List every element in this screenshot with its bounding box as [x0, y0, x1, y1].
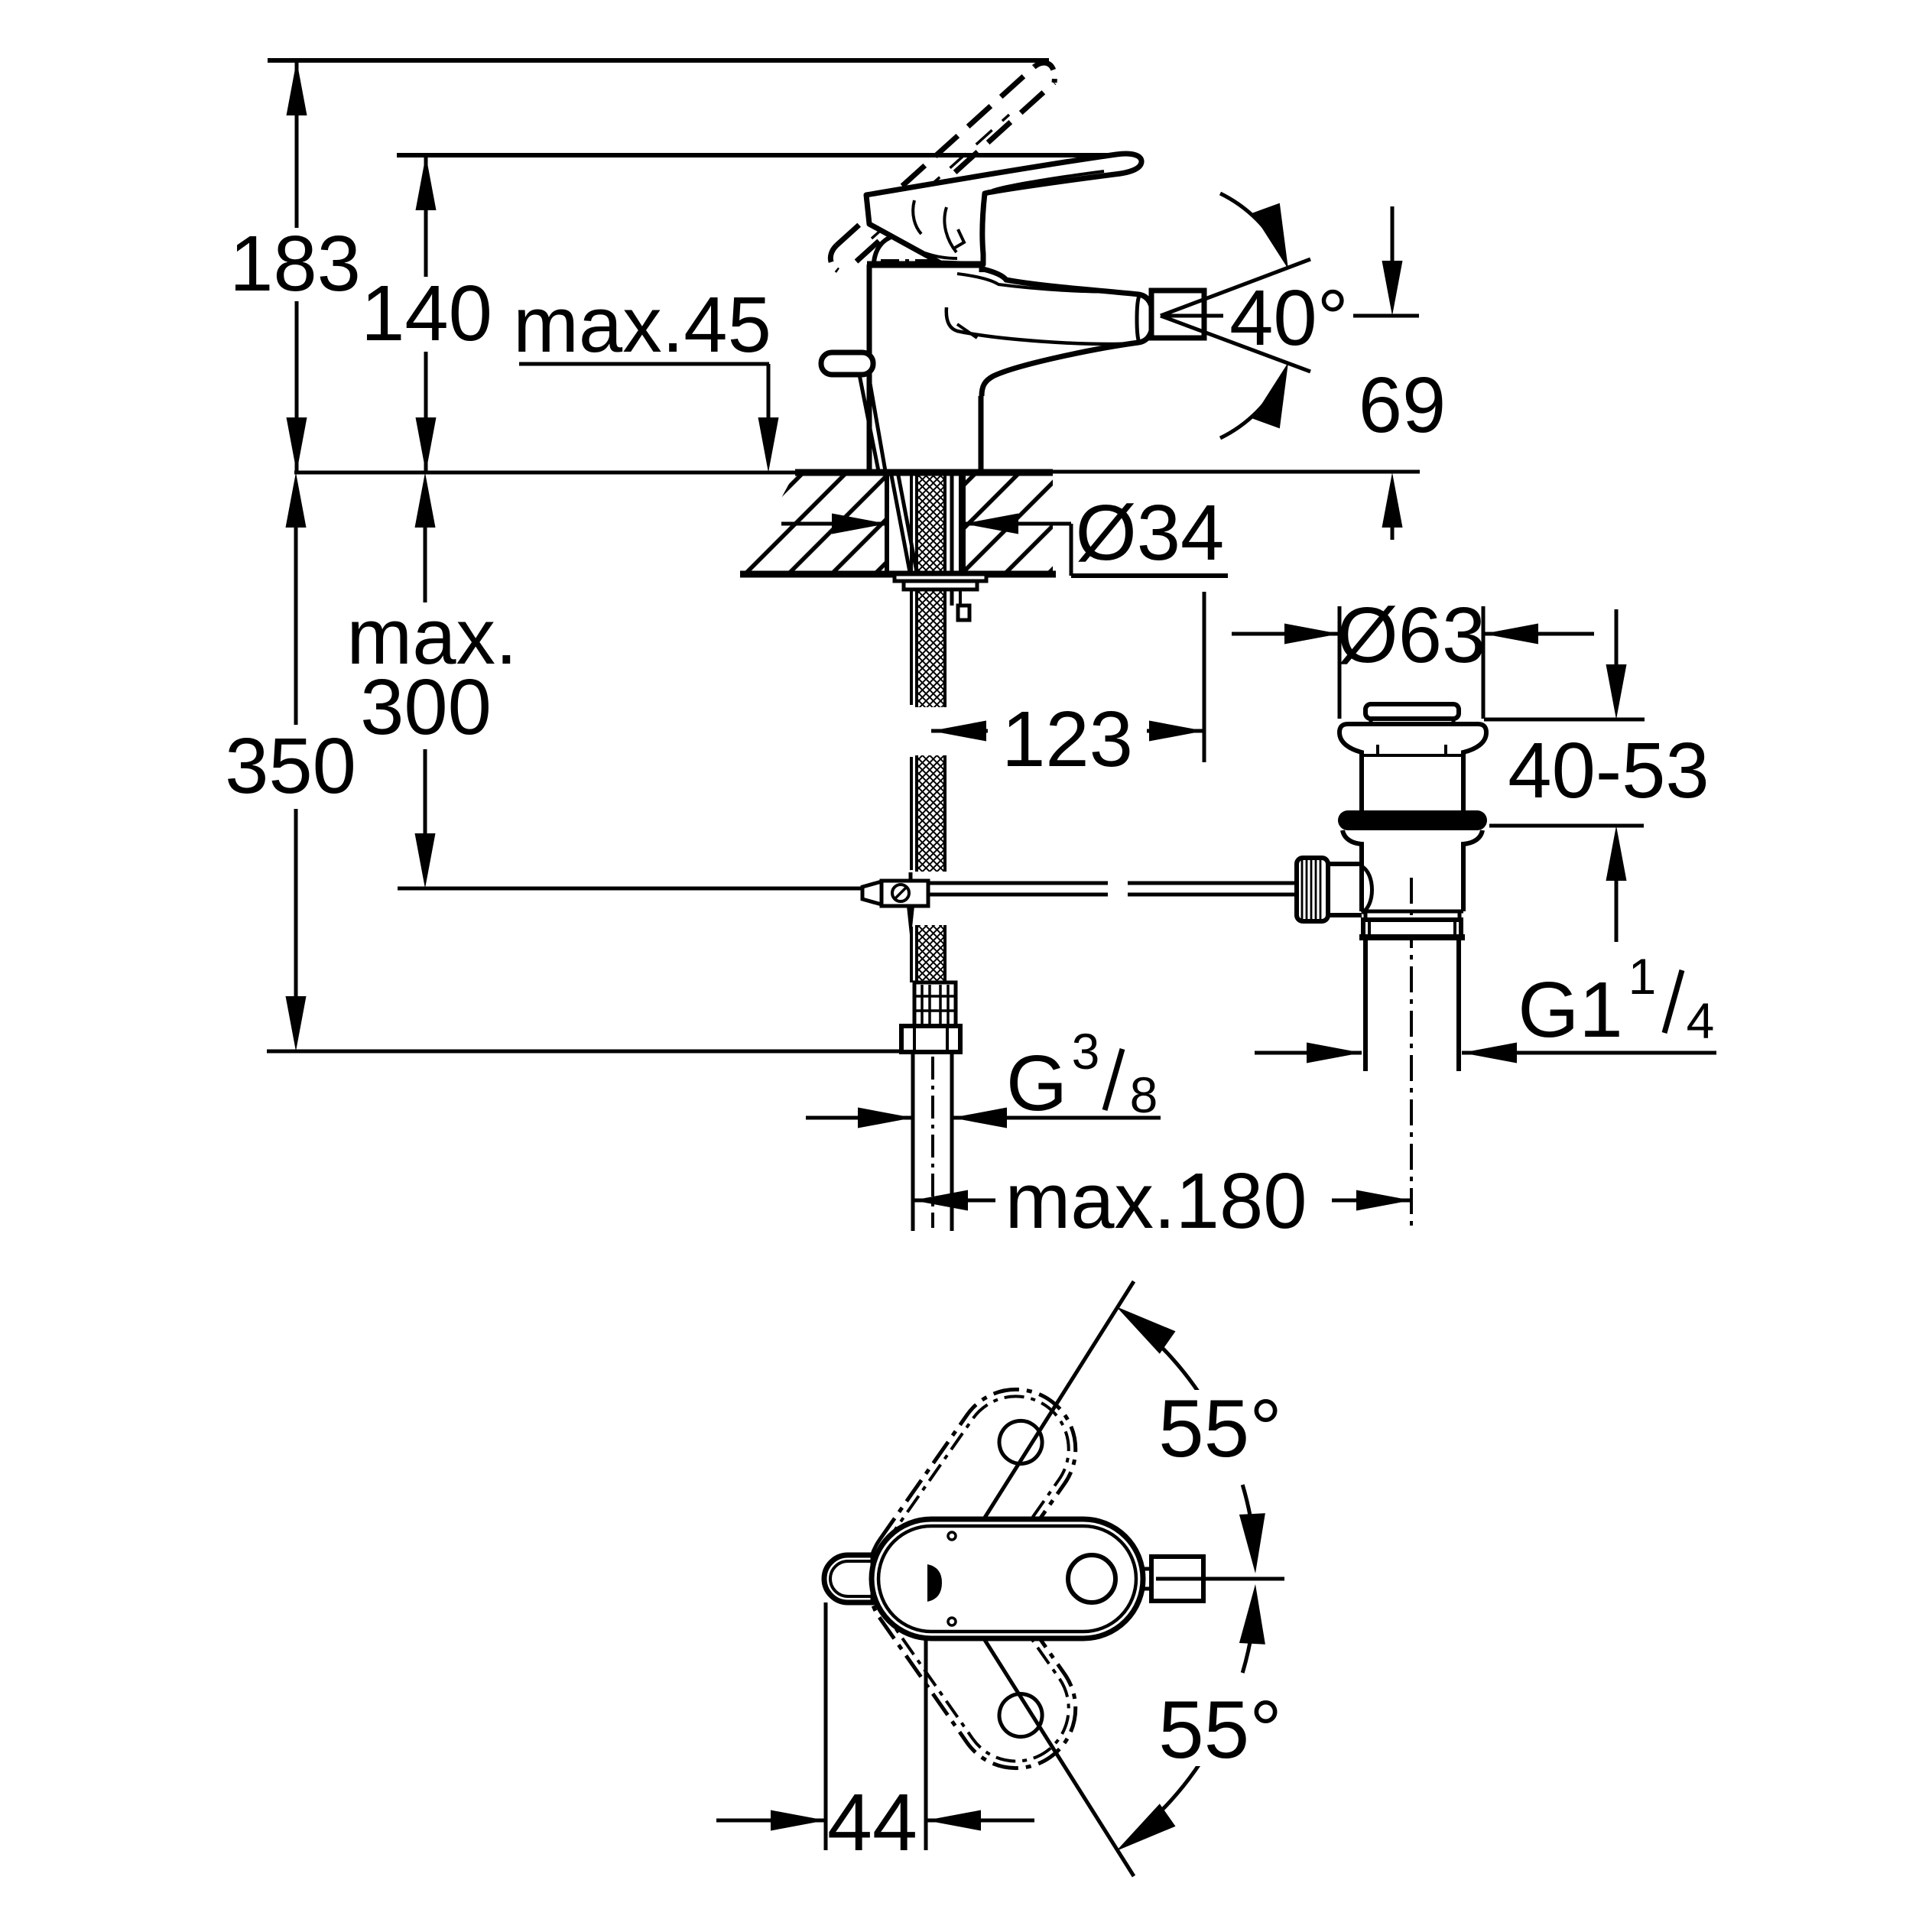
svg-text:Ø63: Ø63: [1337, 591, 1486, 679]
svg-text:G: G: [1006, 1039, 1067, 1127]
svg-text:55°: 55°: [1158, 1684, 1282, 1775]
svg-text:40°: 40°: [1229, 274, 1349, 362]
svg-text:8: 8: [1130, 1067, 1158, 1123]
svg-text:44: 44: [827, 1778, 917, 1868]
svg-text:max.180: max.180: [1005, 1157, 1307, 1245]
svg-text:max.45: max.45: [513, 281, 771, 369]
svg-text:300: 300: [360, 663, 492, 751]
svg-text:3: 3: [1072, 1023, 1100, 1080]
svg-text:4: 4: [1687, 992, 1715, 1049]
svg-text:350: 350: [225, 722, 356, 810]
svg-text:69: 69: [1359, 361, 1447, 449]
svg-text:123: 123: [1002, 695, 1133, 783]
svg-text:G1: G1: [1518, 966, 1622, 1054]
svg-text:Ø34: Ø34: [1076, 489, 1225, 576]
svg-text:1: 1: [1628, 948, 1657, 1005]
svg-text:183: 183: [229, 219, 361, 307]
svg-text:55°: 55°: [1158, 1382, 1282, 1474]
svg-text:140: 140: [361, 269, 492, 357]
svg-text:40-53: 40-53: [1508, 726, 1709, 814]
